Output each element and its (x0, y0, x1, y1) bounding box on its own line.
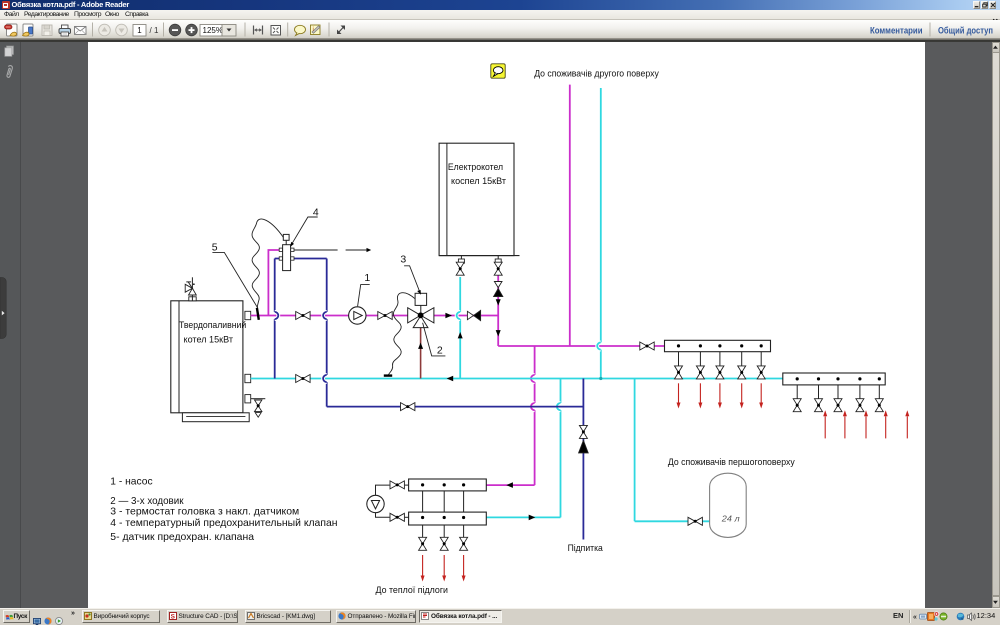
valve: expansion tank shutoff (688, 517, 702, 525)
toolbar icon: email (75, 27, 87, 35)
boiler drain stub (245, 395, 251, 403)
toolbar separator 3 (245, 23, 246, 37)
boiler supply stub (245, 311, 251, 319)
task button: Structure CAD (167, 610, 239, 623)
task button: Обвязка котла.pdf (active) (419, 610, 502, 623)
pipe: relief valve top link (navy) (275, 258, 327, 260)
toolbar icon: comment bubble (295, 25, 306, 35)
capillary tube of thermostat 3 (388, 293, 415, 375)
pipe: floor-heating supply riser (magenta) (531, 346, 535, 485)
pipe: floor-heating return horiz (cyan) (486, 516, 560, 518)
label 3 leader (404, 266, 421, 295)
manifold M2 valves (793, 399, 883, 412)
strap-on sensor tick (on return pipe) (384, 374, 392, 376)
toolbar separator 2 (163, 23, 164, 37)
pipe: bypass bottom horiz (navy) (327, 406, 584, 408)
label 4 leader (290, 217, 318, 247)
capillary tube of valve 4 (252, 219, 283, 308)
manifold M1 red flow arrows (down) (677, 383, 764, 408)
pipe: expansion tank line horiz (cyan) (635, 520, 710, 522)
tray divider (909, 610, 911, 623)
floor manifold M3 (supply) (409, 479, 487, 491)
manifold M2 drop lines (797, 385, 879, 399)
toolbar icon: full screen (271, 26, 281, 36)
electric boiler U2 (Електрокотел коспел 15кВт) (439, 143, 519, 255)
toolbar (0, 20, 1000, 39)
pipe: electric boiler return riser (cyan) (457, 277, 461, 379)
toolbar link: share (938, 26, 993, 36)
quick launch: firefox (44, 612, 52, 620)
flow arrow: floor supply (left) (506, 482, 513, 488)
label 1 (насос) (364, 272, 370, 284)
toolbar separator 1 (92, 23, 93, 37)
text: to floor heating (376, 585, 449, 596)
valve: boiler return shutoff (296, 375, 310, 383)
flow arrow: floor return (right) (529, 515, 536, 521)
valve: make-up shutoff (579, 425, 587, 438)
manifold M1 valves (675, 366, 766, 379)
toolbar right separator (930, 23, 931, 37)
task button: Mozilla (336, 610, 416, 623)
scrollbar down arrow (993, 601, 998, 604)
pipe: expansion tank riser (cyan) (634, 379, 636, 522)
label 1 leader (358, 285, 370, 307)
manifold M1 (2nd floor supply header) (665, 340, 771, 351)
pump P2 (floor heating) (367, 495, 384, 512)
valve: supply header shutoff (640, 342, 654, 350)
taskbar start button (3, 610, 31, 623)
sensor of safety device (5) tick (257, 308, 259, 320)
text: to 2nd floor consumers (534, 68, 659, 79)
floor heating red flow arrows (down) (421, 555, 466, 582)
toolbar icon: fit width (254, 26, 263, 35)
toolbar zoom combo (200, 25, 236, 37)
thermostat head (3) box (415, 293, 427, 312)
quick launch: show desktop (33, 612, 41, 619)
3-way mixing valve (2) (408, 308, 434, 328)
manifold M2 (1st floor return header) (783, 373, 885, 385)
label 5 (датчик) (212, 241, 218, 253)
toolbar icon: prev page (disabled) (99, 24, 111, 36)
valve: pump discharge shutoff (378, 312, 392, 320)
svg-text:«: « (913, 614, 917, 621)
toolbar icon: open/convert pdf (5, 24, 18, 36)
toolbar separator 4 (287, 23, 288, 37)
toolbar icon: zoom in (186, 24, 198, 36)
manifold M1 drop lines (679, 352, 762, 367)
check valve on make-up line (579, 440, 589, 453)
pipe: floor-heating supply branch horiz (magenta) (486, 484, 534, 486)
boiler return stub (245, 374, 251, 382)
label 5 leader (212, 252, 257, 307)
check valve (right-filled) on supply (467, 310, 480, 320)
boiler drain line (251, 398, 266, 400)
label 3 (термостат) (400, 253, 406, 265)
tray clock (977, 611, 996, 620)
legend line 2 (110, 495, 184, 507)
electric boiler left stub (458, 256, 464, 264)
label 4 (предохр. клапан) (313, 207, 319, 219)
flow arrow: sensor line up (dark red) (418, 343, 423, 349)
tray language indicator EN (893, 611, 903, 620)
scrollbar up arrow (993, 46, 998, 49)
pipe: bypass left drop (navy) (275, 259, 279, 379)
flow arrow: down from electric boiler 2 (496, 330, 501, 336)
pipe: riser to 2nd floor return (cyan) (597, 88, 601, 379)
flow arrow: down from electric boiler 1 (496, 299, 501, 305)
valve: boiler supply shutoff (296, 312, 310, 320)
floor manifold link lines (423, 491, 464, 512)
valve: electric boiler return (456, 262, 464, 275)
floor pump piping (376, 485, 410, 517)
quick launch: media player (55, 612, 63, 620)
expansion tank (24 L) (710, 473, 747, 537)
label 2 leader (423, 323, 446, 356)
pipe: electric boiler supply drop (magenta) (497, 274, 499, 346)
quick launch overflow chevron (71, 610, 75, 617)
toolbar icon: sign (311, 25, 321, 35)
electric boiler right stub (495, 256, 501, 264)
task button: Виробничий корпус (82, 610, 161, 623)
task button: Bricscad (245, 610, 332, 623)
text: make-up (Підпитка) (568, 543, 604, 554)
manifold M2 red flow arrows (up) (823, 410, 909, 438)
pump P1 (circulation) (349, 307, 366, 324)
pipe: boiler supply main (magenta) y315 (251, 315, 499, 317)
toolbar icon: zoom out (169, 24, 181, 36)
junction: 2nd floor return tee (599, 377, 602, 380)
valve: bypass shutoff (navy line) (401, 403, 415, 411)
floor manifold M4 (return) (409, 512, 487, 525)
pipe: return main (cyan) y378 (251, 378, 783, 380)
valve: electric boiler supply (494, 262, 502, 275)
legend line 4 (110, 517, 337, 529)
flow arrow: up to electric boiler (cyan riser) (458, 332, 463, 338)
pipe: relief valve connection (magenta) (268, 250, 279, 316)
check valve on electric boiler supply (494, 282, 503, 297)
toolbar icon: next page (disabled) (116, 24, 128, 36)
toolbar page number box (133, 25, 146, 37)
floor manifold valves (419, 537, 468, 550)
menu bar (0, 10, 1000, 20)
toolbar link: comments (870, 26, 923, 36)
text: to 1st floor consumers (668, 457, 795, 468)
toolbar icon: save disabled (42, 25, 52, 36)
valve: floor return shutoff (390, 513, 404, 521)
legend line 3 (110, 506, 299, 518)
pipe: supply header (magenta) y346 (498, 345, 664, 347)
flow arrow: after 3-way valve (right) (445, 313, 452, 319)
label 2 (3-х ходовик) (437, 344, 443, 356)
nav pane icon: pages (5, 46, 14, 56)
pipe: make-up line (navy) (582, 379, 584, 540)
legend line 1 (110, 476, 152, 488)
taskbar (0, 608, 1000, 625)
pipe: bypass right drop (navy) (323, 259, 327, 407)
solid fuel boiler U1 (Твердопаливний котел 15кВт) (171, 301, 249, 422)
pipe: floor-heating return riser (cyan) (557, 379, 561, 518)
steam relief outlet line (294, 248, 371, 252)
temperature relief valve (4) body (279, 234, 294, 270)
toolbar icon: print (59, 25, 71, 36)
system tray icons (912, 610, 1000, 623)
svg-text:S: S (170, 613, 175, 619)
valve: floor supply shutoff (390, 481, 404, 489)
drain valve (255, 400, 262, 417)
pipe: 3-way valve sensor line (dark red) (420, 328, 422, 379)
flow arrow: return to boiler (left) (447, 376, 454, 382)
floor manifold M4 drop lines (423, 525, 464, 538)
nav pane expand tab (0, 278, 6, 339)
legend line 5 (110, 531, 254, 543)
boiler top stub (189, 297, 196, 301)
toolbar separator 5 (329, 23, 330, 37)
toolbar page count (150, 26, 159, 35)
nav pane icon: attachments (paperclip) (7, 66, 12, 78)
toolbar icon: save/download (23, 24, 34, 36)
safety valve SV (boiler top) (185, 277, 196, 301)
title bar (0, 0, 1000, 10)
pdf annotation icon (yellow note) (491, 64, 505, 78)
pipe: riser to 2nd floor supply (magenta) (569, 85, 571, 346)
toolbar icon: expand panes (337, 26, 345, 35)
